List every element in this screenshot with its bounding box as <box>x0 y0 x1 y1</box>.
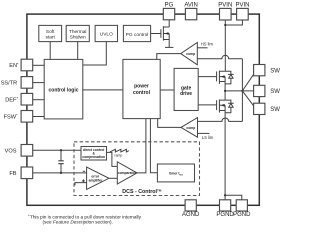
block UVLO <box>95 25 117 41</box>
svg-text:start: start <box>46 34 56 40</box>
svg-text:PGND: PGND <box>216 212 234 218</box>
pin AGND <box>185 200 196 211</box>
svg-text:comparator: comparator <box>118 171 137 175</box>
svg-text:PGND: PGND <box>233 212 251 218</box>
wire error amp output to comparator <box>109 177 117 179</box>
block control logic <box>44 59 83 119</box>
wire Q3 source to PGND node <box>224 111 226 200</box>
junction VOS tap <box>60 149 62 151</box>
wire HS comp sense input to SW (hops PVIN line) <box>197 55 242 58</box>
wire power control to gate drive <box>160 89 174 91</box>
svg-text:PVIN: PVIN <box>218 3 232 9</box>
transistor Q1 (PG open-drain) <box>161 26 169 40</box>
junction SW at FET midpoint <box>224 90 226 92</box>
wire SS/TR to control logic <box>33 82 45 84</box>
svg-text:*This pin is connected to a pu: *This pin is connected to a pull down re… <box>28 213 142 219</box>
comparator U3 output (LS lim comp) to power control <box>158 119 181 128</box>
svg-text:FSW*: FSW* <box>4 113 18 121</box>
svg-text:ramp: ramp <box>115 154 123 158</box>
diode D2 <box>228 74 234 78</box>
comparator U3 (LS current limit) <box>181 118 198 138</box>
pin PVIN <box>220 8 232 20</box>
wire SW sense vertical <box>241 59 243 122</box>
block timer ton <box>157 164 194 182</box>
wire EN to control logic <box>33 64 45 66</box>
wire error amp non-inverting input (Vref stub) <box>75 183 87 186</box>
wire gate drive to Q3 gate <box>198 104 216 106</box>
wire power control to timer <box>150 119 157 173</box>
wire control logic to power control <box>83 89 123 91</box>
block PG control <box>123 25 150 41</box>
wire PGND node to PGND2 <box>225 195 242 200</box>
svg-text:SW: SW <box>270 68 280 74</box>
ramp sawtooth symbol <box>110 149 129 152</box>
block power control <box>123 59 160 118</box>
block Thermal Shtdwn <box>66 25 89 41</box>
pin PVIN2 <box>237 8 249 20</box>
body diode D2 branch <box>225 71 231 84</box>
svg-text:PG: PG <box>165 3 174 9</box>
wire HS lim reference input <box>197 47 207 49</box>
junction PGND node <box>224 194 226 196</box>
wire fan node to SW1 <box>242 74 253 91</box>
wire PG control to Q1 gate <box>151 33 161 35</box>
block gate drive <box>174 68 198 110</box>
junction FB tap <box>60 172 62 174</box>
wire VOS to direct control block <box>33 149 81 151</box>
body arrow Q2 <box>221 75 225 78</box>
label minus input <box>83 170 86 172</box>
comparator U4 (DCS) <box>117 162 137 184</box>
wire PG pin to Q1 drain <box>168 20 170 27</box>
svg-text:VOS: VOS <box>5 149 17 155</box>
wire PVIN to high-side FET drain (node PVIN) <box>224 20 226 72</box>
comparator U2 (HS current limit) <box>181 42 198 64</box>
svg-text:EN*: EN* <box>9 61 19 69</box>
pin PGND2 <box>236 200 247 211</box>
comparator U2 output (HS lim comp) to power control <box>157 54 181 60</box>
body arrow Q3 <box>221 104 225 107</box>
svg-text:drive: drive <box>180 91 192 97</box>
junction SW fan node <box>241 90 243 92</box>
pin PG <box>163 8 174 19</box>
pin EN <box>21 59 33 71</box>
wire LS lim reference input <box>198 132 210 134</box>
pin PGND1 <box>220 200 231 211</box>
capacitor C1 (VOS-FB) <box>58 150 63 173</box>
svg-text:DCS - ControlTM: DCS - ControlTM <box>122 189 162 196</box>
svg-text:Soft: Soft <box>46 29 55 35</box>
wire comparator U1 output to power control <box>137 119 146 173</box>
svg-text:(see Feature Description secti: (see Feature Description section). <box>43 220 113 225</box>
svg-text:amplifier: amplifier <box>89 178 104 182</box>
svg-text:AVIN: AVIN <box>184 3 198 9</box>
wire direct control to comparator (ramp path) <box>107 152 118 166</box>
svg-text:SW: SW <box>270 107 280 113</box>
svg-text:AGND: AGND <box>182 212 200 218</box>
svg-text:comp: comp <box>186 52 195 56</box>
wire Q2 source to SW node <box>224 82 226 101</box>
wire PVIN2 to PVIN node <box>225 20 242 25</box>
wire Soft start to control logic <box>49 42 51 60</box>
svg-text:comp: comp <box>186 126 195 130</box>
svg-text:control logic: control logic <box>49 87 79 93</box>
svg-text:compensation: compensation <box>82 155 105 159</box>
svg-text:HS lim: HS lim <box>201 42 214 47</box>
op-amp U1 error amplifier <box>87 167 109 189</box>
pin AVIN <box>185 8 196 19</box>
pin SW2 <box>254 85 265 96</box>
svg-text:PVIN: PVIN <box>235 3 249 9</box>
pin FSW <box>21 111 33 123</box>
wire UVLO to control logic <box>83 42 107 65</box>
pin SS/TR <box>21 77 33 89</box>
wire gate drive to Q2 gate <box>198 76 216 78</box>
svg-text:power: power <box>134 84 149 90</box>
IC outline border <box>27 14 259 205</box>
svg-text:control: control <box>133 90 151 96</box>
diode D3 <box>228 103 234 107</box>
body arrow Q1 <box>165 32 169 35</box>
wire fan node to SW3 <box>242 91 253 106</box>
pin VOS <box>21 145 33 157</box>
junction PVIN node <box>224 24 226 26</box>
wire FB to error amplifier inverting input <box>33 172 87 174</box>
svg-text:PG control: PG control <box>126 32 149 38</box>
ground bar (PG FET source) <box>165 46 173 48</box>
body diode D3 branch <box>225 100 231 113</box>
transistor Q3 (low-side FET) <box>217 100 226 113</box>
svg-text:UVLO: UVLO <box>100 32 113 38</box>
wire FSW to control logic <box>33 116 45 118</box>
wire DEF to control logic <box>33 99 45 101</box>
pin FB <box>21 167 33 179</box>
block direct control and compensation <box>81 147 107 161</box>
block Soft start <box>39 25 62 41</box>
svg-text:FB: FB <box>9 171 16 177</box>
svg-text:Shtdwn: Shtdwn <box>70 34 86 40</box>
wire SW midpoint to fan node <box>225 90 254 92</box>
wire LS comp sense input to SW (hops PGND line) <box>198 118 243 121</box>
pin DEF <box>21 93 33 105</box>
svg-text:SS/TR: SS/TR <box>1 80 17 86</box>
svg-text:LS lim: LS lim <box>202 135 214 140</box>
pin SW1 <box>254 65 265 76</box>
DCS-Control dashed block <box>74 142 200 196</box>
label plus input <box>82 179 85 182</box>
svg-text:Thermal: Thermal <box>69 29 87 35</box>
svg-text:SW: SW <box>270 89 280 95</box>
pin SW3 <box>254 103 265 114</box>
svg-text:DEF*: DEF* <box>5 96 18 104</box>
wire Thermal Shtdwn to control logic <box>77 42 79 60</box>
transistor Q2 (high-side FET) <box>217 71 226 84</box>
wire Q1 source to ground <box>168 40 170 48</box>
